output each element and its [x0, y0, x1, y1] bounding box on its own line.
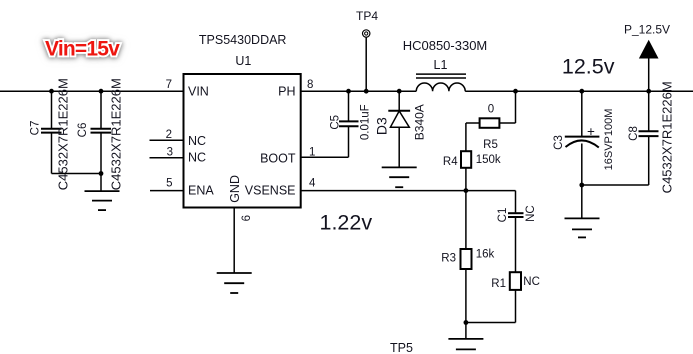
svg-text:2: 2	[166, 129, 172, 141]
pin 7 number	[166, 79, 172, 91]
pin name NC pin2	[188, 134, 206, 148]
svg-text:+: +	[587, 124, 595, 139]
pin 5 stub ENA	[150, 190, 184, 192]
resistor R1	[510, 272, 521, 322]
value label C7 C4532X7R1E226M	[56, 78, 71, 190]
label R1	[491, 278, 506, 290]
ground feedback divider	[448, 339, 483, 350]
svg-text:D3: D3	[374, 117, 390, 135]
svg-text:4: 4	[309, 177, 316, 189]
svg-text:C4532X7R1E226M: C4532X7R1E226M	[660, 81, 675, 193]
svg-text:R1: R1	[491, 278, 506, 290]
net label P_12.5V	[624, 23, 670, 37]
ground D3	[382, 167, 417, 187]
wire L1 to right edge	[465, 90, 693, 92]
svg-text:TPS5430DDAR: TPS5430DDAR	[199, 33, 287, 47]
value label C8 C4532X7R1E226M	[660, 81, 675, 193]
value label 150k	[476, 154, 501, 166]
pin 6 number rotated	[241, 215, 253, 221]
wire PH output to L1	[301, 90, 417, 92]
capacitor C8	[628, 91, 659, 185]
wire R1 bottom to R3	[466, 322, 516, 324]
svg-text:VSENSE: VSENSE	[245, 184, 296, 198]
svg-text:ENA: ENA	[188, 184, 214, 198]
svg-text:TP5: TP5	[390, 341, 413, 354]
junction dot C8 top	[646, 89, 651, 94]
wire BOOT to C5	[301, 156, 349, 158]
svg-text:C7: C7	[30, 121, 42, 136]
svg-text:TP4: TP4	[356, 9, 378, 23]
pin name VSENSE	[245, 184, 296, 198]
svg-text:12.5v: 12.5v	[562, 54, 615, 78]
svg-text:R4: R4	[443, 156, 458, 168]
pin 3 number	[167, 146, 173, 158]
net label Vin=15v	[45, 37, 120, 60]
svg-text:C3: C3	[553, 135, 565, 150]
junction dot feedback node	[464, 188, 469, 193]
junction dot C7 top	[49, 89, 54, 94]
label TP4	[356, 9, 378, 23]
value label HC0850-330M	[403, 38, 488, 53]
pin 5 number	[166, 177, 172, 189]
svg-text:L1: L1	[434, 58, 448, 72]
value label NC for C1	[525, 205, 537, 222]
junction dot C5	[346, 89, 351, 94]
svg-text:NC: NC	[188, 150, 206, 164]
svg-text:1.22v: 1.22v	[320, 210, 373, 234]
pin 1 number	[309, 146, 315, 158]
svg-text:NC: NC	[525, 205, 537, 222]
inductor L1	[416, 58, 466, 91]
ground U1 GND	[217, 273, 252, 293]
svg-text:B340A: B340A	[413, 104, 427, 140]
junction dot TP4	[364, 89, 369, 94]
svg-text:8: 8	[307, 79, 313, 91]
ground output caps	[565, 218, 600, 237]
svg-text:GND: GND	[228, 175, 242, 203]
pin 8 number	[307, 79, 313, 91]
svg-text:U1: U1	[235, 54, 251, 68]
svg-text:0.01uF: 0.01uF	[360, 104, 372, 140]
value label B340A	[413, 104, 427, 140]
svg-text:NC: NC	[523, 276, 540, 288]
svg-text:5: 5	[166, 177, 172, 189]
svg-text:6: 6	[241, 215, 253, 221]
svg-text:C5: C5	[330, 115, 342, 130]
svg-text:150k: 150k	[476, 154, 501, 166]
svg-text:P_12.5V: P_12.5V	[624, 23, 670, 37]
svg-text:C8: C8	[628, 126, 640, 141]
svg-text:HC0850-330M: HC0850-330M	[403, 38, 488, 53]
svg-text:VIN: VIN	[188, 84, 209, 98]
svg-text:R5: R5	[483, 139, 498, 151]
capacitor C7	[30, 91, 62, 173]
value label 16k	[476, 249, 495, 261]
op-amp U1 TPS5430DDAR body	[184, 74, 301, 208]
resistor R3	[461, 191, 472, 339]
net label 12.5v	[562, 54, 615, 78]
svg-text:C1: C1	[497, 208, 509, 223]
svg-text:BOOT: BOOT	[260, 152, 296, 166]
diode D3	[374, 91, 410, 167]
polarity plus C3	[587, 124, 595, 139]
pin 6 wire GND	[233, 208, 235, 274]
pin name PH	[278, 84, 295, 98]
junction dot C6 bottom	[99, 171, 104, 176]
value label NC for R1	[523, 276, 540, 288]
svg-text:PH: PH	[278, 84, 295, 98]
wire bottom rail C3 to C8	[582, 184, 649, 186]
label U1	[235, 54, 251, 68]
svg-text:7: 7	[166, 79, 172, 91]
svg-text:C4532X7R1E226M: C4532X7R1E226M	[108, 78, 123, 190]
resistor R5	[466, 91, 516, 128]
junction dot C3 top	[579, 89, 584, 94]
pin name BOOT	[260, 152, 296, 166]
wire TP4	[365, 37, 367, 91]
svg-text:R3: R3	[441, 253, 456, 265]
pin name ENA	[188, 184, 214, 198]
pin 4 number	[309, 177, 316, 189]
junction dot D3	[397, 89, 402, 94]
pin 3 stub	[150, 157, 184, 159]
resistor R4	[461, 123, 471, 191]
value label C6 C4532X7R1E226M	[108, 78, 123, 190]
wire VSENSE feedback	[301, 190, 516, 192]
pin 2 number	[166, 129, 172, 141]
wire input bus	[0, 90, 184, 92]
capacitor C6	[77, 91, 111, 191]
test point TP4	[363, 30, 370, 37]
pin name GND rotated	[228, 175, 242, 203]
svg-text:C6: C6	[77, 123, 89, 138]
label R5	[483, 139, 498, 151]
value label 16SVP100M	[603, 109, 615, 171]
label TPS5430DDAR	[199, 33, 287, 47]
label TP5	[390, 341, 413, 354]
svg-text:0: 0	[488, 103, 494, 115]
junction dot R5 tap	[513, 89, 518, 94]
junction dot C3 bottom	[579, 183, 584, 188]
label R3	[441, 253, 456, 265]
pin name NC pin3	[188, 150, 206, 164]
value label 0	[488, 103, 494, 115]
capacitor C3 polarized	[553, 91, 600, 218]
svg-text:NC: NC	[188, 134, 206, 148]
svg-text:Vin=15v: Vin=15v	[45, 37, 120, 60]
value label 0.01uF	[360, 104, 372, 140]
capacitor C5	[330, 91, 359, 157]
power symbol P_12.5V	[640, 41, 658, 91]
svg-text:16k: 16k	[476, 249, 495, 261]
wire C7 to C6 bottom	[52, 173, 102, 175]
junction dot C6 top	[99, 89, 104, 94]
net label 1.22v	[320, 210, 373, 234]
pin name VIN	[188, 84, 209, 98]
svg-text:16SVP100M: 16SVP100M	[603, 109, 615, 171]
ground input caps	[85, 191, 120, 210]
junction dot R3 bottom	[464, 320, 469, 325]
label R4	[443, 156, 458, 168]
svg-text:3: 3	[167, 146, 173, 158]
pin 2 stub	[150, 139, 184, 141]
capacitor C1	[497, 191, 524, 273]
